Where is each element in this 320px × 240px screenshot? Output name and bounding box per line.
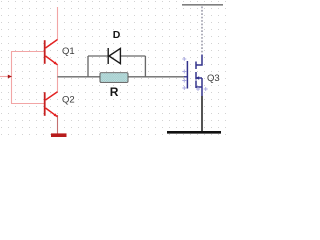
svg-text:D: D [113, 29, 121, 41]
svg-text:Q3: Q3 [207, 73, 220, 84]
svg-text:R: R [110, 85, 119, 99]
svg-text:Q1: Q1 [62, 46, 75, 57]
svg-text:Q2: Q2 [62, 95, 75, 106]
